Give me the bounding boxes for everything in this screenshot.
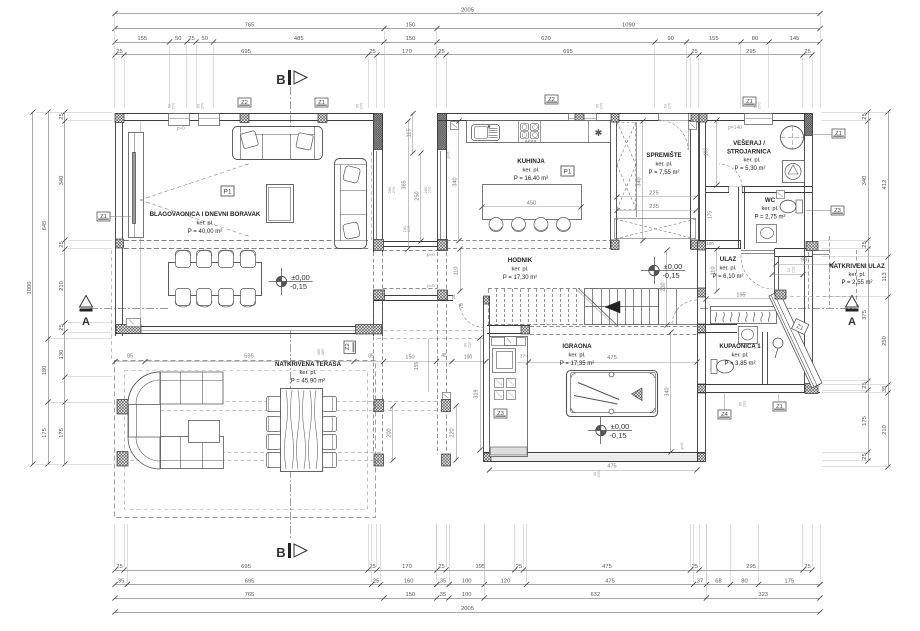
wall kitchen-block left [437, 114, 439, 251]
dim row bottom 1 [112, 564, 814, 573]
svg-text:220: 220 [450, 428, 456, 437]
svg-text:±0,00: ±0,00 [611, 422, 630, 431]
wall ulaz/igraona right side [697, 241, 699, 462]
window right wall living [376, 151, 378, 240]
window recess top wall 1 [169, 114, 190, 126]
elevation marker hodnik [641, 257, 685, 284]
igraona dim 319 vertical [480, 338, 482, 450]
svg-text:ULAZ: ULAZ [720, 256, 737, 263]
wall kupaonica top [698, 324, 737, 326]
svg-text:IGRAONA: IGRAONA [562, 343, 592, 350]
extension lines right [822, 113, 891, 467]
svg-text:270: 270 [667, 102, 672, 109]
dim col right 1 [862, 109, 871, 463]
pillar right wall living mid2 [374, 290, 383, 300]
svg-text:765: 765 [245, 22, 255, 28]
terrace dashed outline outer [115, 361, 376, 518]
dim 475 below igraona [490, 470, 698, 472]
svg-text:25: 25 [691, 49, 697, 55]
pillar walkway left low1 [374, 400, 384, 412]
svg-text:45: 45 [441, 353, 447, 359]
svg-text:150: 150 [406, 592, 416, 598]
label box Z2 top wall 1 [238, 98, 251, 107]
washing machine [783, 161, 805, 183]
wc sink [757, 225, 777, 243]
svg-text:B: B [276, 545, 285, 560]
pillar left wall mid [116, 239, 124, 248]
svg-text:25: 25 [59, 241, 65, 247]
svg-text:270: 270 [391, 186, 396, 193]
label box Z1 right side [832, 129, 845, 138]
svg-text:Z1: Z1 [835, 131, 842, 137]
svg-text:210: 210 [661, 282, 667, 291]
stair direction arrow [605, 301, 620, 313]
ulaz dim 110 [716, 249, 718, 291]
svg-text:HODNIK: HODNIK [508, 257, 533, 264]
pillar right wall y241 [698, 241, 706, 250]
svg-text:295: 295 [746, 49, 756, 55]
pillar below stairs [521, 326, 530, 335]
svg-text:25: 25 [59, 113, 65, 119]
svg-text:210: 210 [59, 281, 65, 291]
terrace beam dashed [117, 452, 383, 454]
interior line living [140, 121, 142, 326]
svg-text:25: 25 [804, 564, 810, 570]
pillar walkway right low1 [442, 400, 451, 412]
svg-text:100: 100 [462, 592, 472, 598]
pillar right wall y384 [698, 384, 706, 393]
room label living [150, 211, 261, 235]
dim col left 1 (1000) [27, 109, 36, 466]
wardrobe ulaz [711, 307, 777, 324]
svg-text:2005: 2005 [461, 7, 474, 13]
dim row top 4 [112, 49, 814, 58]
svg-text:100: 100 [706, 241, 714, 246]
door arc spremiste [658, 120, 688, 150]
svg-text:-0,15: -0,15 [662, 271, 679, 280]
svg-text:P = 16,40 m²: P = 16,40 m² [514, 176, 548, 182]
dining chairs bottom [176, 289, 191, 306]
pillar gap right top [438, 240, 448, 251]
section line B-B vertical [290, 87, 292, 142]
label box Z1 left wall [97, 212, 110, 221]
extension lines bottom [115, 524, 821, 596]
svg-text:115: 115 [407, 129, 413, 138]
svg-text:Z4: Z4 [721, 412, 729, 418]
svg-text:25: 25 [862, 382, 868, 388]
svg-text:ker. pl.: ker. pl. [196, 221, 213, 227]
svg-text:1000: 1000 [27, 282, 33, 295]
entrance threshold [741, 250, 775, 252]
svg-text:475: 475 [607, 355, 617, 361]
section marker A left [80, 296, 93, 329]
wall top of right block [437, 113, 812, 115]
svg-text:170: 170 [402, 564, 412, 570]
wall veseraj / wc divider [706, 186, 812, 188]
pillar walkway left low2 [374, 454, 384, 466]
svg-text:35: 35 [440, 578, 446, 584]
svg-text:200: 200 [742, 400, 747, 407]
svg-text:ker. pl.: ker. pl. [731, 353, 748, 359]
svg-text:25: 25 [862, 241, 868, 247]
room label igraona [560, 343, 594, 367]
dim 155 vertical below living [428, 339, 430, 392]
svg-text:85: 85 [368, 354, 374, 360]
svg-text:-0,15: -0,15 [290, 282, 307, 291]
svg-text:ker. pl.: ker. pl. [522, 168, 539, 174]
pillar top wall mid 1 [240, 114, 249, 123]
svg-text:270: 270 [427, 186, 432, 193]
svg-text:195: 195 [736, 293, 745, 299]
svg-text:113: 113 [882, 272, 888, 281]
svg-text:270: 270 [200, 102, 205, 109]
entrance niche wall east [775, 248, 812, 250]
svg-text:±0,00: ±0,00 [291, 273, 310, 282]
svg-text:50: 50 [175, 36, 181, 42]
wall left of living block [115, 114, 117, 337]
svg-text:150: 150 [405, 355, 414, 361]
svg-text:175: 175 [708, 211, 714, 220]
wall top of living block [115, 113, 377, 115]
terrace dashed outline inner [125, 371, 368, 510]
gap dims [412, 114, 414, 154]
svg-text:ker. pl.: ker. pl. [568, 353, 585, 359]
svg-text:37: 37 [697, 578, 703, 584]
igraona closet unit [490, 337, 528, 457]
pillar spremiste top right / corner [691, 114, 699, 123]
svg-text:A: A [82, 316, 90, 328]
svg-text:155: 155 [709, 36, 719, 42]
svg-text:100: 100 [462, 578, 472, 584]
svg-text:80: 80 [752, 36, 758, 42]
extension lines top [115, 16, 821, 108]
pillar walkway right low2 [442, 454, 451, 466]
beam across gap top [383, 241, 438, 243]
svg-text:Z1: Z1 [318, 100, 325, 106]
svg-text:P = 2,75 m²: P = 2,75 m² [754, 215, 785, 221]
beam dashed kitchen south (open to hodnik) [447, 240, 612, 242]
svg-text:695: 695 [241, 564, 251, 570]
svg-text:475: 475 [607, 464, 616, 470]
dim row top 3 [112, 36, 822, 45]
svg-text:210: 210 [467, 341, 472, 348]
svg-text:68: 68 [715, 578, 721, 584]
wall right block outer right [804, 114, 806, 394]
svg-text:75: 75 [459, 303, 465, 309]
corner sofa terrace [128, 372, 224, 469]
svg-text:p=140: p=140 [728, 125, 742, 131]
svg-text:620: 620 [541, 36, 551, 42]
svg-text:210: 210 [791, 266, 796, 273]
tv view cone dashed [140, 163, 251, 200]
door arc ulaz [741, 255, 772, 289]
pillar spremiste bottom right [691, 240, 699, 250]
svg-text:155: 155 [137, 36, 147, 42]
dim 195 wardrobe [706, 298, 776, 300]
opening spremiste door top [658, 114, 688, 121]
pillar right wall living mid1 [374, 240, 383, 250]
svg-text:25: 25 [804, 49, 810, 55]
svg-text:KUHINJA: KUHINJA [517, 158, 545, 165]
dim col right 2 [882, 109, 891, 469]
pillar top wall mid 2 [318, 114, 327, 123]
svg-text:200: 200 [387, 428, 393, 437]
svg-text:35: 35 [118, 578, 124, 584]
svg-text:B: B [276, 72, 285, 87]
terrace dining table [281, 389, 323, 472]
pillar igraona left top [484, 296, 490, 304]
leader Z4 [724, 394, 726, 411]
svg-text:P = 45,90 m²: P = 45,90 m² [291, 379, 325, 385]
niche side wall vertical [774, 256, 776, 307]
svg-text:25: 25 [516, 564, 522, 570]
wall igraona left [483, 296, 485, 462]
svg-text:155: 155 [414, 362, 420, 371]
svg-text:p=0: p=0 [446, 151, 451, 159]
pillar bottom-left corner [116, 325, 141, 334]
kitchen island [483, 185, 582, 220]
dashed roof edge left of wall [111, 250, 113, 361]
label box Z1 top wall 2 [315, 98, 328, 107]
label box Z2 terrace corner (rotated) [344, 341, 356, 354]
svg-text:323: 323 [758, 592, 768, 598]
label box P1 living [221, 186, 234, 196]
svg-text:p=0: p=0 [427, 252, 435, 257]
svg-text:P = 17,35 m²: P = 17,35 m² [560, 361, 594, 367]
pillar top-left corner [115, 114, 124, 123]
svg-text:765: 765 [245, 592, 255, 598]
svg-text:695: 695 [241, 49, 251, 55]
svg-text:270: 270 [757, 102, 762, 109]
walkway dashed beam lower [377, 330, 483, 332]
svg-text:340: 340 [59, 176, 65, 186]
svg-text:85: 85 [127, 354, 133, 360]
pillar veseraj top left [699, 114, 707, 123]
stair break line [578, 288, 618, 326]
svg-text:485: 485 [294, 36, 304, 42]
terrace chairs left [267, 397, 281, 412]
svg-text:160: 160 [404, 578, 414, 584]
svg-text:25: 25 [438, 49, 444, 55]
svg-text:SPREMIŠTE: SPREMIŠTE [646, 151, 681, 159]
dim row bottom 2 [112, 578, 822, 587]
dim col left 3 [59, 109, 68, 466]
svg-text:Z2: Z2 [241, 100, 248, 106]
dashed line under stairs to right [530, 326, 697, 328]
boiler circle veseraj [781, 126, 804, 149]
svg-text:170: 170 [406, 225, 411, 232]
wall igraona bottom [484, 454, 705, 462]
tv cabinet [129, 133, 144, 238]
svg-text:p=0: p=0 [427, 283, 435, 288]
svg-text:±0,00: ±0,00 [664, 262, 683, 271]
svg-text:210: 210 [882, 425, 888, 435]
wall kupaonica right [762, 332, 764, 385]
section marker A right [846, 296, 859, 329]
svg-text:319: 319 [474, 389, 480, 398]
terrace chairs right [323, 397, 337, 412]
svg-text:235: 235 [649, 204, 659, 210]
svg-text:P1: P1 [224, 189, 232, 196]
svg-text:412: 412 [882, 180, 888, 190]
pillar entrance bottom right [805, 384, 818, 394]
svg-text:340: 340 [453, 177, 459, 186]
dim row bottom 4 (2005) [112, 606, 822, 615]
label box Z3 closet [494, 409, 507, 418]
svg-text:195: 195 [475, 564, 485, 570]
wall veseraj left [699, 121, 701, 249]
label box Z4 below kupaonica [718, 410, 731, 419]
elevation marker igraona [588, 417, 632, 444]
walkway dashed edges [373, 252, 375, 454]
stairs right cells [658, 289, 660, 325]
svg-text:450: 450 [527, 201, 537, 207]
sofa right living [334, 159, 367, 249]
pillar terrace left 2 [117, 452, 128, 467]
wc toilet [796, 200, 803, 213]
dining chairs top [176, 251, 191, 268]
svg-text:P = 5,30 m²: P = 5,30 m² [734, 166, 765, 172]
svg-text:270: 270 [599, 102, 604, 109]
svg-text:50: 50 [202, 36, 208, 42]
door arc kupaonica from hodnik [672, 300, 697, 325]
hob 4 burners [521, 124, 529, 131]
svg-text:35: 35 [440, 592, 446, 598]
svg-text:295: 295 [746, 564, 756, 570]
svg-text:P = 3,85 m²: P = 3,85 m² [724, 361, 755, 367]
pillar spremiste top left [611, 114, 619, 123]
room label veseraj [727, 139, 772, 172]
svg-text:120: 120 [501, 578, 511, 584]
label box Z3 right side [831, 206, 844, 215]
section marker B bottom [276, 543, 307, 560]
svg-text:25: 25 [862, 453, 868, 459]
svg-text:WC: WC [765, 197, 776, 204]
svg-text:695: 695 [563, 49, 573, 55]
svg-text:NATKRIVENA TERASA: NATKRIVENA TERASA [275, 361, 342, 368]
svg-text:145: 145 [790, 36, 800, 42]
coffee table living [267, 185, 294, 223]
svg-text:BLAGOVAONICA I DNEVNI BORAVAK: BLAGOVAONICA I DNEVNI BORAVAK [150, 211, 261, 218]
dining table [169, 263, 262, 296]
svg-text:p=0: p=0 [177, 126, 185, 131]
natkriveni ulaz dashes [808, 252, 810, 308]
pillar gap left mid [374, 290, 385, 300]
svg-text:1090: 1090 [622, 22, 635, 28]
pillar gap left top [374, 240, 384, 251]
pillar igraona bottom-right [698, 453, 706, 462]
pillar wc bottom right [806, 242, 818, 251]
room label kuhinja [514, 158, 548, 182]
svg-text:P = 40,00 m²: P = 40,00 m² [188, 229, 222, 235]
svg-text:250: 250 [415, 191, 421, 200]
label box P1 kitchen [561, 166, 574, 176]
billiard table [567, 371, 658, 417]
window recess top wall 2 [199, 114, 220, 126]
window recess veseraj top [745, 114, 773, 125]
svg-text:475: 475 [605, 578, 615, 584]
svg-text:NATKRIVENI ULAZ: NATKRIVENI ULAZ [829, 263, 885, 270]
kitchen dim 340 vertical [458, 121, 460, 241]
igraona dim 475 [518, 362, 698, 364]
bar stools [489, 218, 503, 232]
label box Z2 kitchen top [545, 95, 558, 104]
svg-text:695: 695 [245, 578, 255, 584]
wall across gap (hodnik north) [374, 295, 453, 297]
pillar kitchen bottom left [438, 240, 447, 250]
room label kupaonica [719, 343, 761, 367]
wall bottom of living block (glass) [115, 326, 368, 328]
pillar kitchen top mid [575, 114, 584, 123]
svg-text:Z1: Z1 [100, 214, 107, 220]
svg-text:175: 175 [59, 428, 65, 438]
svg-text:P1: P1 [564, 169, 572, 176]
radiator living bottom-left [127, 319, 141, 327]
radiator veseraj [777, 191, 785, 199]
svg-text:175: 175 [42, 428, 48, 438]
svg-text:375: 375 [862, 310, 868, 320]
svg-text:✱: ✱ [595, 128, 603, 139]
pillar diag stair top [775, 290, 786, 299]
room label spremiste [646, 151, 681, 176]
pillar spremiste bottom left [611, 240, 619, 250]
pillar igraona bottom-left [484, 453, 492, 462]
svg-text:ker. pl.: ker. pl. [719, 266, 736, 272]
svg-text:645: 645 [42, 221, 48, 231]
island dim 450 [482, 206, 581, 208]
svg-text:385: 385 [320, 348, 325, 355]
wall kitchen/spremiste divider [610, 121, 612, 249]
svg-text:340: 340 [862, 176, 868, 186]
stairs [488, 288, 697, 326]
exterior diagonal stair [769, 291, 822, 388]
room label natkriveni ulaz [829, 263, 885, 286]
svg-text:25: 25 [451, 294, 456, 300]
sofa top living [233, 127, 323, 161]
washbasin kupaonica [739, 327, 758, 344]
dim row bottom 3 [112, 592, 822, 601]
terrace beam dashed upper row [128, 401, 442, 403]
svg-text:Z1: Z1 [776, 404, 783, 410]
wall below stairs segment [487, 325, 530, 327]
svg-text:25: 25 [188, 36, 194, 42]
svg-text:110: 110 [454, 267, 460, 276]
svg-text:210: 210 [596, 470, 601, 477]
spremiste bottom shelf [615, 219, 696, 239]
svg-text:100: 100 [464, 355, 473, 361]
svg-text:37: 37 [520, 354, 526, 359]
svg-text:25: 25 [692, 564, 698, 570]
svg-text:A: A [848, 316, 856, 328]
svg-text:-0,15: -0,15 [609, 431, 626, 440]
svg-text:35: 35 [882, 386, 888, 392]
elevation marker dining [269, 268, 313, 295]
room label ulaz [712, 256, 743, 280]
svg-text:595: 595 [244, 354, 254, 360]
svg-text:P = 17,30 m²: P = 17,30 m² [503, 275, 537, 281]
svg-text:150: 150 [406, 22, 416, 28]
svg-text:340: 340 [665, 387, 671, 396]
svg-text:25: 25 [438, 564, 444, 570]
wall right of living block [373, 114, 375, 253]
svg-text:ker. pl.: ker. pl. [743, 158, 760, 164]
section line A-A horizontal [90, 308, 168, 310]
hodnik dim 110 [460, 249, 462, 291]
svg-text:130: 130 [59, 350, 65, 360]
walkway dim 150 [384, 361, 487, 363]
dim row top 2 [112, 22, 822, 31]
room label natkrivena terasa [275, 361, 342, 385]
